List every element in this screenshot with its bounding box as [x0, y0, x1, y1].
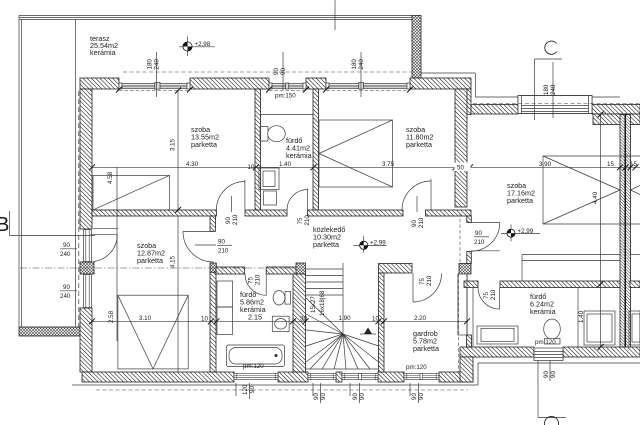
svg-text:3.15: 3.15 [170, 138, 177, 151]
svg-text:10: 10 [248, 164, 255, 171]
south window stairs 1 [308, 373, 336, 379]
svg-text:210: 210 [232, 214, 239, 225]
svg-text:90: 90 [218, 239, 225, 246]
wall furdo5.86 west [210, 272, 216, 372]
chimney wall szoba11.80 east [455, 89, 467, 207]
shelf line szoba12.87 [93, 228, 119, 230]
door szoba11.80 label 90/210 [411, 196, 425, 228]
svg-text:180: 180 [543, 84, 550, 95]
svg-text:+2.99: +2.99 [370, 240, 386, 247]
svg-text:90: 90 [63, 284, 70, 291]
eaves outline east section [421, 73, 620, 97]
window W3 annotation 180/240 [351, 52, 365, 97]
north wall east segment F [592, 105, 640, 115]
wall furdo5.86 / stairs [293, 274, 306, 372]
south window stairs 2 [342, 373, 378, 379]
room label furdo 6.24 [530, 292, 556, 316]
washbasin cabinet furdo4.41 [259, 168, 279, 190]
south window tub [234, 373, 278, 379]
gardrob west wall [379, 273, 385, 372]
shower furdo6.24 [584, 311, 615, 345]
neighbour bed mirrored [631, 186, 640, 195]
shelf line furdo4.41 [260, 114, 313, 116]
door szoba12.87 [183, 232, 214, 263]
south wall west segments [82, 372, 234, 382]
gardrob east wall line [467, 274, 473, 347]
svg-text:15: 15 [607, 161, 614, 168]
vertical dim 4.15 [170, 216, 179, 372]
room label szoba 17.16 [507, 181, 535, 205]
bed szoba12.87 [118, 295, 188, 369]
dimension texts y167 [186, 161, 395, 171]
west wall lower [80, 308, 92, 372]
south window stairs 2 labels 90/90 [350, 383, 366, 403]
window W2 annotation 90/90 [273, 52, 287, 90]
svg-text:75: 75 [419, 278, 426, 285]
door szoba12.87 label 90/210 [195, 239, 232, 255]
svg-text:pm 120: pm 120 [535, 339, 556, 346]
north wall east segment E [471, 105, 518, 115]
room label gardrob 5.78 [413, 329, 439, 353]
svg-text:pm:120: pm:120 [243, 363, 264, 370]
furdo6.24 north wall segments [464, 281, 478, 288]
opening dashed kozlekedo east [459, 213, 461, 263]
svg-text:10: 10 [372, 315, 379, 322]
svg-text:parketta: parketta [507, 196, 533, 205]
terrace railing top [19, 16, 412, 20]
vertical dim 4.40 [592, 112, 604, 351]
svg-text:parketta: parketta [413, 344, 439, 353]
door furdo6.24 label 75/210 [483, 289, 497, 300]
svg-text:parketta: parketta [313, 240, 339, 249]
svg-text:240: 240 [60, 293, 71, 300]
door gardrob label 75/210 [419, 275, 433, 286]
room label furdo 4.41 [286, 136, 312, 160]
south window furdo6.24 [534, 348, 563, 361]
terrace railing left [19, 16, 22, 328]
washbasin furdo5.86 [272, 316, 289, 331]
niche lines szoba17.16 south [522, 255, 640, 282]
gardrob shelf lines [458, 274, 467, 335]
svg-text:90: 90 [280, 68, 287, 75]
svg-text:90: 90 [320, 393, 327, 400]
window edge ticks on north wall [116, 87, 413, 93]
svg-text:4.30: 4.30 [186, 161, 199, 168]
west wall upper [80, 89, 92, 229]
svg-text:4.58: 4.58 [107, 171, 114, 184]
west wall pier crosshatch [80, 262, 94, 274]
north wall segment D [410, 78, 471, 89]
vertical dim 3.15 [170, 88, 182, 214]
top dimension extension line [334, 0, 336, 30]
svg-text:1.40: 1.40 [279, 161, 292, 168]
door furdo5.86 label 75/210 [248, 274, 262, 285]
door szoba17.16 label 90/210 [474, 230, 489, 246]
svg-text:75: 75 [297, 217, 304, 224]
furdo5.86 north wall segments [216, 267, 245, 274]
bed szoba17.16 [543, 156, 640, 224]
svg-text:+2.99: +2.99 [518, 228, 534, 235]
svg-text:3.10: 3.10 [139, 315, 152, 322]
svg-text:90: 90 [352, 393, 359, 400]
svg-text:3.75: 3.75 [382, 161, 395, 168]
svg-text:90: 90 [411, 393, 418, 400]
bed szoba13.55 [93, 175, 169, 210]
svg-text:210: 210 [218, 248, 229, 255]
svg-text:210: 210 [426, 275, 433, 286]
window W4 east north (180/240) [473, 96, 640, 114]
svg-text:10: 10 [201, 315, 208, 322]
terrace label [90, 34, 118, 57]
south window gardrob [404, 373, 439, 379]
section marker C top [535, 41, 563, 120]
svg-text:90: 90 [63, 242, 70, 249]
door szoba13.55 label 90/210 [225, 196, 239, 225]
svg-text:180: 180 [147, 59, 154, 70]
stairs treads upper flight [306, 263, 343, 335]
svg-text:210: 210 [490, 289, 497, 300]
west window frame (90/240) [84, 274, 92, 308]
svg-text:4.40: 4.40 [592, 191, 599, 204]
north wall segment C [306, 78, 326, 89]
svg-text:pm:120: pm:120 [406, 364, 427, 371]
toilet furdo5.86 [273, 291, 291, 305]
door szoba13.55 [216, 180, 245, 210]
svg-text:30: 30 [300, 315, 307, 322]
svg-text:210: 210 [474, 239, 485, 246]
svg-text:120: 120 [242, 384, 249, 395]
svg-text:kerámia: kerámia [90, 48, 116, 57]
svg-text:B: B [0, 214, 9, 236]
stairs winder fan [306, 298, 379, 369]
north wall segment A [80, 78, 119, 89]
gardrob east wall stub [467, 335, 472, 347]
roof overhang dashed line top [123, 71, 412, 73]
svg-text:90: 90 [313, 393, 320, 400]
room label szoba 12.87 [137, 241, 165, 265]
interior wall furdo4.41 / szoba11.80 [313, 89, 319, 210]
svg-text:90: 90 [475, 230, 482, 237]
svg-text:90: 90 [225, 217, 232, 224]
south outer step line east [478, 362, 640, 364]
overhang dashed west [78, 91, 80, 327]
door szoba11.80 [402, 179, 431, 210]
svg-text:90: 90 [359, 393, 366, 400]
svg-text:2.58: 2.58 [108, 310, 115, 323]
south overhang dashed [96, 389, 468, 391]
svg-text:4.15: 4.15 [170, 255, 177, 268]
svg-text:90: 90 [418, 393, 425, 400]
door furdo4.41 [287, 189, 308, 211]
south window tub labels 120/90 [236, 383, 256, 399]
wall kozlekedo / szoba17.16 upper [467, 216, 472, 223]
kozlekedo south wall segment at gardrob [379, 264, 413, 274]
terrace door swing [91, 235, 118, 262]
dimension line y321 across lower rooms [91, 320, 467, 322]
svg-text:1.40: 1.40 [578, 310, 585, 323]
bathtub furdo5.86 [226, 345, 284, 367]
dimension ticks y321 [89, 318, 470, 324]
window W2 north (pm:150) [269, 83, 306, 91]
svg-text:+2.98: +2.98 [195, 41, 211, 48]
svg-text:240: 240 [550, 84, 557, 95]
north-east jog wall [459, 89, 471, 115]
section dash-dot line [20, 267, 296, 269]
svg-text:2.15: 2.15 [248, 313, 262, 322]
east double wall [620, 115, 631, 348]
door furdo4.41 label 75/210 [297, 215, 311, 226]
dimension line y167 across plan [91, 166, 640, 168]
room label kozlekedo 10.30 [313, 225, 345, 249]
svg-text:90: 90 [273, 68, 280, 75]
door furdo6.24 [478, 288, 500, 310]
dimension texts y321 [139, 315, 427, 323]
wall szoba12.87 east upper [210, 216, 216, 231]
south window gardrob labels 90/90 [410, 383, 425, 403]
room label szoba 13.55 [191, 125, 219, 149]
elevation marker +2.98 [179, 37, 215, 57]
room label szoba 11.80 [406, 125, 433, 149]
north wall east corner thickening [593, 114, 640, 125]
west window label 90/240 [60, 284, 77, 300]
window W4 annotation 180/240 [543, 62, 557, 118]
vertical line at furdo6.24 (1.40) [578, 288, 585, 348]
mid horizontal wall segments (south of top rooms) [92, 210, 216, 216]
door szoba17.16 [471, 223, 500, 252]
svg-text:15: 15 [630, 161, 637, 168]
room label furdo 5.86 [240, 290, 266, 322]
svg-text:16x18|68: 16x18|68 [319, 290, 326, 316]
counter furdo6.24 [477, 326, 518, 344]
elevation marker +2.99 kozlekedo [354, 236, 387, 253]
door gardrob [413, 274, 442, 303]
svg-text:50: 50 [457, 165, 464, 172]
terrace pier wall (crosshatch column) [412, 16, 421, 79]
dim 50 with backing [455, 163, 471, 172]
svg-text:210: 210 [255, 274, 262, 285]
section marker C bottom [538, 361, 566, 425]
shower neighbour mirrored [629, 311, 640, 345]
south window furdo6.24 labels 90/90 [543, 361, 557, 381]
svg-text:240: 240 [60, 251, 71, 258]
svg-text:90: 90 [550, 371, 557, 378]
south wall east segments [460, 347, 534, 357]
vertical dim 4.58 [107, 167, 117, 341]
door furdo5.86 [245, 274, 266, 296]
north wall segment B [190, 78, 269, 89]
svg-text:parketta: parketta [191, 140, 217, 149]
svg-text:240: 240 [358, 59, 365, 70]
svg-text:90: 90 [249, 386, 256, 393]
dimension ticks y167 [89, 164, 639, 170]
terrace door label 90/240 [60, 242, 77, 258]
bed szoba11.80 [319, 120, 393, 187]
svg-text:210: 210 [304, 215, 311, 226]
svg-text:pm:150: pm:150 [275, 93, 296, 100]
svg-text:15x27: 15x27 [310, 296, 317, 313]
gardrob shelf column [458, 274, 467, 372]
svg-text:180: 180 [351, 59, 358, 70]
interior wall szoba13.55 / furdo4.41 [255, 89, 261, 210]
terrace south band [19, 327, 82, 336]
pier kozlekedo SE crosshatch [459, 264, 471, 275]
pier szoba12.87 east crosshatch [210, 263, 216, 272]
svg-text:3.90: 3.90 [539, 161, 552, 168]
toilet furdo4.41 [260, 126, 285, 142]
terrace inner edge line [75, 20, 77, 328]
window W1 annotation 180/240 [147, 52, 161, 97]
svg-text:210: 210 [418, 217, 425, 228]
south window stairs 1 labels 90/90 [313, 383, 327, 403]
window W3 north (180/240) [326, 83, 410, 91]
svg-text:75: 75 [483, 292, 490, 299]
svg-text:parketta: parketta [406, 140, 432, 149]
svg-text:75: 75 [248, 277, 255, 284]
svg-text:kerámia: kerámia [530, 307, 556, 316]
stairs label 15x27 16x18/68 [310, 290, 326, 316]
svg-text:1.90: 1.90 [339, 315, 352, 322]
elevation marker +2.99 szoba17.16 [501, 225, 540, 242]
terrace door frame (90/240) [84, 229, 92, 262]
svg-text:2.20: 2.20 [414, 315, 427, 322]
wall kozlekedo / szoba17.16 lower [467, 252, 472, 264]
south jog wall [460, 357, 473, 382]
washer furdo5.86 [217, 281, 233, 335]
svg-text:90: 90 [411, 220, 418, 227]
svg-text:parketta: parketta [137, 256, 163, 265]
section line B leader [10, 211, 96, 236]
svg-text:kerámia: kerámia [286, 151, 312, 160]
toilet furdo6.24 [544, 319, 561, 344]
small fixture furdo4.41 [264, 191, 277, 205]
svg-text:90: 90 [543, 371, 550, 378]
pier stairs NW crosshatch [296, 263, 306, 274]
window W1 north (180/240) [119, 83, 190, 91]
svg-text:240: 240 [154, 59, 161, 70]
stairs up arrow [360, 328, 376, 335]
